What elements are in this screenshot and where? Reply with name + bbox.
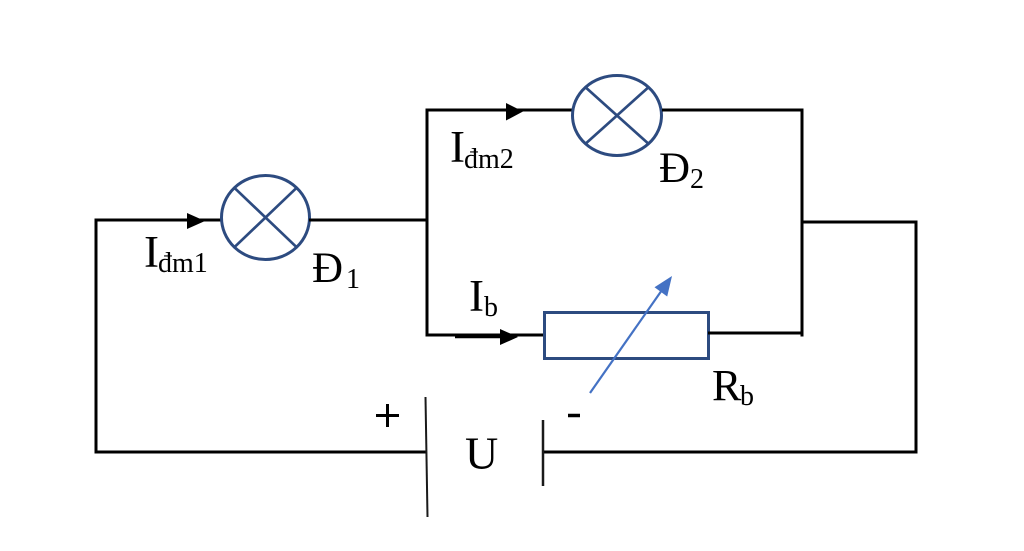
label D1 <box>312 245 360 295</box>
wire: rheostat to right vertical of parallel block <box>708 332 804 335</box>
minus sign <box>568 414 580 418</box>
wire: right vertical side <box>915 221 918 454</box>
wire: lamp D2 to right vertical of parallel block <box>662 109 804 112</box>
wire: lamp D1 to junction node <box>309 219 429 222</box>
wire: top branch horizontal into lamp D2 <box>426 109 573 112</box>
label Ib <box>469 271 498 323</box>
battery minus plate (short line) <box>542 420 545 486</box>
battery plus plate (long line) <box>426 397 428 517</box>
label D2 <box>659 145 704 195</box>
wire: top-left horizontal into lamp D1 <box>95 219 222 222</box>
wire: right vertical of parallel block <box>801 109 804 337</box>
wire: bottom left horizontal to battery plus <box>95 451 427 454</box>
lamp D1 (circle with X) <box>222 176 310 260</box>
label Rb <box>712 361 754 412</box>
arrow on wire to D1 (current direction Idm1) <box>187 213 205 229</box>
wire: bottom right horizontal to battery minus <box>543 451 918 454</box>
svg-text:1: 1 <box>346 264 360 295</box>
svg-text:U: U <box>465 428 498 479</box>
svg-text:b: b <box>484 292 498 323</box>
svg-text:I: I <box>469 271 484 321</box>
svg-text:I: I <box>144 227 159 277</box>
svg-text:R: R <box>712 361 742 410</box>
wire: thicker connector overlay before Ib arrow <box>455 335 502 339</box>
rheostat adjustment arrow <box>590 276 672 393</box>
wire: left vertical side <box>95 219 98 454</box>
svg-text:Đ: Đ <box>312 245 343 292</box>
arrow on top branch (current Idm2) <box>506 103 523 121</box>
svg-text:I: I <box>450 122 465 172</box>
svg-text:đm1: đm1 <box>158 248 208 279</box>
wire: bottom branch horizontal into rheostat <box>426 334 545 337</box>
arrow on bottom branch (current Ib) <box>500 329 518 345</box>
label Idm2 <box>450 122 514 175</box>
svg-text:Đ: Đ <box>659 145 690 192</box>
svg-text:b: b <box>740 381 754 412</box>
svg-text:2: 2 <box>690 164 704 195</box>
plus sign <box>376 404 399 427</box>
rheostat Rb body (rectangle) <box>545 313 709 359</box>
wire: junction vertical (split to parallel branches) <box>426 109 429 337</box>
svg-text:đm2: đm2 <box>464 144 514 175</box>
label Idm1 <box>144 227 208 279</box>
wire: parallel block to right side <box>801 221 918 224</box>
lamp D2 (circle with X) <box>573 76 662 156</box>
